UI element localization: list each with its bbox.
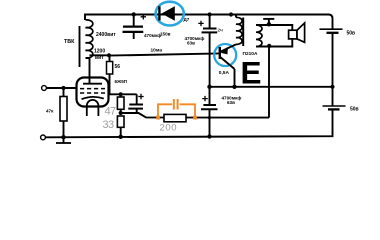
svg-text:1200: 1200 — [94, 49, 105, 55]
wire cathode right — [109, 93, 137, 95]
svg-text:63в: 63в — [227, 100, 235, 105]
capacitor C4 cathode bypass — [128, 94, 143, 113]
node C3 at bottom rail — [207, 134, 211, 138]
svg-text:0,5А: 0,5А — [219, 70, 230, 76]
node R1 bottom — [61, 135, 65, 139]
svg-text:47к: 47к — [46, 109, 54, 114]
transformer T2 secondary winding — [256, 25, 292, 47]
svg-text:56: 56 — [115, 64, 121, 70]
svg-text:Д7: Д7 — [184, 17, 190, 22]
wire top rail — [85, 15, 329, 21]
diode D7 circle — [156, 2, 184, 26]
node R2/R3 junction — [119, 111, 123, 115]
transformer T2 primary winding — [229, 12, 242, 44]
resistor R3 33 — [117, 116, 124, 137]
diode D7 symbol — [159, 6, 174, 20]
svg-text:200: 200 — [160, 123, 178, 134]
node secondary bottom tap — [267, 44, 271, 48]
capacitor C1 470mkf 150v — [123, 12, 171, 39]
resistor R56 — [107, 55, 121, 94]
svg-text:50в: 50в — [347, 31, 356, 37]
tube V1 envelope — [77, 78, 109, 107]
transistor V2 P210A — [220, 44, 236, 86]
node grid resistor top — [61, 86, 65, 90]
input terminal bottom — [41, 135, 46, 140]
wire battery bottom + bottom rail — [46, 109, 333, 137]
battery GB2 50v — [323, 106, 359, 113]
svg-text:50в: 50в — [350, 107, 359, 113]
node emitter at rail — [232, 85, 236, 89]
transformer T1 core — [79, 26, 81, 67]
wire secondary tap down to cathode wire — [268, 47, 270, 118]
capacitor C3 4700mkf 63v (lower) — [201, 87, 241, 137]
node battery midpoint — [330, 85, 334, 89]
secondary top tap terminal — [263, 19, 274, 27]
wire winding bottom to tube anode — [86, 58, 90, 78]
node tap junction — [107, 53, 111, 57]
resistor R4 200 — [164, 114, 186, 121]
battery GB1 50v — [320, 29, 356, 37]
transistor V2 circle — [214, 44, 236, 66]
orange bypass capacitor annotation — [156, 99, 197, 120]
svg-text:150в: 150в — [160, 31, 171, 36]
resistor R1 47k — [46, 88, 67, 137]
wire input to grid — [46, 87, 76, 89]
speaker — [289, 23, 305, 42]
tube grids — [80, 89, 105, 93]
tube anode — [83, 78, 102, 84]
ground — [56, 137, 71, 143]
svg-text:470мкф: 470мкф — [144, 32, 161, 38]
tube heater arc — [87, 100, 99, 116]
svg-text:47: 47 — [105, 105, 117, 117]
svg-text:33: 33 — [103, 119, 115, 131]
node R3 bottom — [119, 135, 123, 139]
transformer T2 core — [242, 18, 244, 47]
node cathode / R2 top — [119, 92, 123, 96]
svg-text:ТВК: ТВК — [64, 39, 75, 45]
svg-text:2ч: 2ч — [218, 28, 224, 34]
node C3 at cathode wire — [208, 116, 211, 119]
resistor R2 47 — [117, 94, 124, 113]
wire winding tap — [90, 54, 110, 56]
svg-text:E: E — [241, 55, 262, 91]
svg-text:2400вит: 2400вит — [96, 32, 116, 38]
wire right column top — [329, 15, 333, 30]
wire cathode to emitter bus — [121, 113, 269, 118]
svg-text:63в: 63в — [187, 40, 195, 45]
wire emitter mid rail — [210, 86, 333, 88]
tube cathode — [82, 97, 104, 99]
svg-text:10ма: 10ма — [151, 48, 163, 54]
svg-text:6Ж5П: 6Ж5П — [115, 79, 128, 84]
wire between batteries — [332, 33, 334, 106]
capacitor C2 4700mkf 63v (upper) — [185, 12, 218, 86]
node C2/emitter rail — [207, 85, 211, 89]
input terminal top — [42, 86, 47, 91]
inductor winding 2400vit + 1200vit — [86, 20, 93, 58]
wire tap to transistor base — [109, 53, 220, 55]
